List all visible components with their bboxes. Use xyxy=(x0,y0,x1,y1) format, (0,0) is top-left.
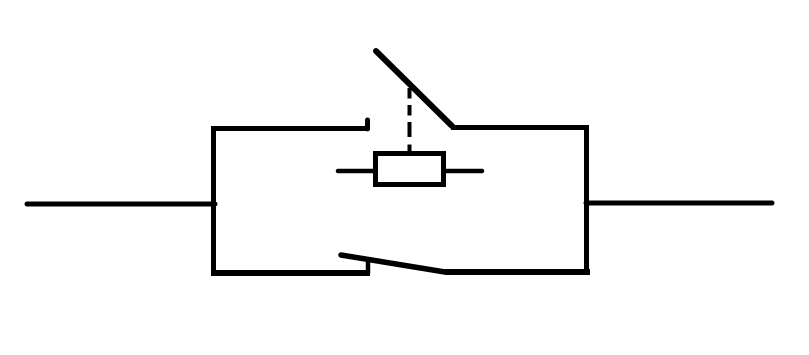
wire: bottom branch from lower blade to right bus xyxy=(445,269,590,275)
node: lower fixed contact stub xyxy=(366,262,371,273)
wire: right terminal lead xyxy=(586,201,772,206)
wire: top branch from left bus to upper contact xyxy=(211,126,369,131)
linkage: dash 3 xyxy=(408,122,412,137)
linkage: dash 2 xyxy=(408,105,412,116)
wire: right vertical bus xyxy=(584,125,589,275)
wire: left terminal lead xyxy=(27,202,215,207)
linkage: dash 4 xyxy=(408,145,412,153)
wire: top branch from upper blade pivot to right bus xyxy=(451,125,589,130)
wire: resistor right lead xyxy=(445,169,482,174)
node: upper fixed contact stub xyxy=(365,120,370,129)
wire: left vertical bus xyxy=(211,126,216,276)
switch S1: upper blade (open) xyxy=(376,51,452,126)
linkage: dashed mechanical link from blade to resistor, dash 1 xyxy=(408,88,412,99)
resistor R: body xyxy=(376,154,444,185)
switch S2: lower blade (closed) xyxy=(341,255,445,272)
wire: bottom branch from left bus to lower contact xyxy=(211,270,370,276)
wire: resistor left lead xyxy=(338,169,374,174)
